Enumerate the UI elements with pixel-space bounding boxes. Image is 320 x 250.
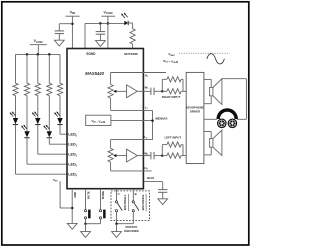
- svg-text:DRIVER: DRIVER: [190, 109, 200, 113]
- resistor R4: [47, 83, 52, 95]
- junction: [71, 207, 74, 210]
- junction: [84, 222, 87, 225]
- wire: [183, 155, 186, 157]
- wire L2 net: [111, 139, 153, 141]
- wire: [86, 223, 101, 225]
- resistor R10 left input: [162, 153, 183, 158]
- wire headphone left: [204, 118, 217, 120]
- ground: [67, 223, 77, 229]
- wire GND pin: [71, 189, 73, 224]
- wire: [59, 23, 72, 25]
- LED D1: [10, 111, 19, 124]
- wire LED supply rail: [16, 53, 61, 55]
- svg-text:BIAS: BIAS: [147, 176, 154, 180]
- wire: [110, 140, 112, 149]
- capacitor C4: [151, 152, 162, 159]
- junction: [115, 222, 118, 225]
- wire: [110, 98, 112, 110]
- wire LED3 net: [27, 138, 67, 164]
- capacitor C2: [96, 23, 105, 40]
- wire: [183, 90, 186, 92]
- wire W1 output: [137, 90, 151, 92]
- potentiometer P2: [108, 148, 127, 162]
- resistor R8 right input: [162, 89, 183, 94]
- wire: [26, 96, 28, 132]
- capacitor C5: [158, 190, 167, 199]
- headphone driver block: [186, 72, 204, 163]
- node A junction: [161, 90, 164, 93]
- wire H2 net: [111, 170, 152, 172]
- annotation VMAX level: [168, 52, 229, 57]
- wire LED4 net: [16, 125, 68, 174]
- op-amp buffer A2: [127, 149, 138, 162]
- svg-text:MIDBIAS: MIDBIAS: [155, 117, 167, 121]
- LED D3: [32, 111, 41, 124]
- svg-text:ENCODER A: ENCODER A: [123, 195, 127, 211]
- svg-text:LEFT INPUT: LEFT INPUT: [164, 135, 181, 139]
- wire: [110, 73, 112, 85]
- svg-text:SGND: SGND: [86, 52, 96, 56]
- op-amp buffer A1: [127, 85, 138, 98]
- LED D2: [21, 125, 30, 138]
- speaker SP1 right: [204, 79, 222, 105]
- junction MIDBIAS: [151, 119, 154, 122]
- wire LED1 net: [49, 138, 67, 144]
- wire SGND branch: [85, 23, 108, 48]
- svg-text:MUTEIND: MUTEIND: [124, 52, 138, 56]
- wire to mute LED: [108, 22, 124, 24]
- junction VLOGIC node: [107, 22, 110, 25]
- switch encoder A: [115, 201, 122, 212]
- wire: [132, 44, 134, 49]
- resistor R1: [13, 83, 18, 95]
- LED D5: [54, 111, 63, 124]
- ground: [112, 224, 122, 238]
- pushbutton S1 mute: [84, 189, 90, 224]
- svg-text:MAX5440: MAX5440: [85, 71, 104, 76]
- LED D4: [44, 125, 53, 138]
- wire: [48, 96, 50, 132]
- supply VLOGIC (LED bank): [30, 39, 47, 54]
- wire VSS branch: [60, 181, 72, 208]
- wire headphone right loop: [222, 79, 247, 120]
- junction: [37, 53, 40, 56]
- wire: [59, 54, 61, 83]
- wire: [15, 96, 17, 118]
- wire: [26, 54, 28, 83]
- annotation sine wave: [207, 54, 225, 64]
- label ENCODER B: [141, 194, 146, 212]
- wire W2 output: [137, 155, 151, 157]
- resistor R5: [57, 83, 62, 95]
- wire BIAS net: [144, 182, 163, 190]
- ground: [96, 41, 106, 47]
- wire: [15, 54, 17, 83]
- op-amp U1 MAX5440 IC body: [67, 49, 143, 189]
- wire: [117, 212, 134, 224]
- wire LED0 net: [60, 125, 67, 134]
- wire: [128, 23, 132, 29]
- svg-text:MUTE: MUTE: [87, 191, 91, 199]
- ground: [81, 224, 91, 238]
- label ROTARY ENCODER: [124, 225, 139, 233]
- switch encoder B: [132, 201, 139, 212]
- wire encoder A pin: [116, 189, 118, 201]
- resistor R6: [130, 29, 135, 44]
- LED D6 mute indicator: [121, 13, 128, 26]
- supply VLOGIC: [101, 10, 115, 48]
- svg-text:ENCODER: ENCODER: [124, 229, 139, 233]
- resistor R2: [24, 83, 29, 95]
- junction VDD bypass: [71, 22, 74, 25]
- potentiometer P1: [108, 85, 127, 99]
- svg-text:A: A: [117, 193, 121, 195]
- capacitor C1: [55, 24, 64, 41]
- resistor R9 feedback: [162, 142, 183, 156]
- wire H1 net: [111, 72, 166, 74]
- pushbutton S2 mode: [99, 189, 105, 224]
- wire encoder B pin: [132, 189, 134, 201]
- wire MIDBIAS output: [111, 120, 153, 122]
- capacitor C3: [151, 88, 162, 95]
- svg-text:MODE: MODE: [101, 191, 105, 199]
- wire MIDBIAS tie: [152, 110, 154, 139]
- wire LED2 net: [38, 125, 67, 154]
- svg-text:GND: GND: [73, 192, 77, 198]
- wire: [37, 54, 39, 83]
- speaker SP2 left: [204, 130, 222, 155]
- junction C2 tap: [99, 22, 102, 25]
- label ENCODER A: [123, 194, 128, 211]
- ground: [158, 199, 168, 205]
- resistor R3: [35, 83, 40, 95]
- svg-text:HEADPHONE: HEADPHONE: [186, 105, 203, 109]
- wire: [59, 96, 61, 118]
- svg-text:ENCODER B: ENCODER B: [141, 194, 145, 210]
- wire L1 net: [111, 109, 153, 111]
- junction: [48, 53, 51, 56]
- wire: [37, 96, 39, 118]
- junction: [26, 53, 29, 56]
- bias generator block VDD/2: [86, 115, 111, 125]
- ground: [54, 40, 64, 46]
- resistor R7 feedback: [162, 77, 183, 92]
- svg-text:RIGHT INPUT: RIGHT INPUT: [162, 95, 181, 99]
- wire: [48, 54, 50, 83]
- headphones icon: [217, 110, 237, 128]
- wire: [110, 162, 112, 171]
- svg-text:B: B: [133, 193, 137, 195]
- rotary encoder enclosure: [111, 191, 150, 221]
- node B junction: [161, 154, 164, 157]
- supply VDD: [66, 10, 80, 48]
